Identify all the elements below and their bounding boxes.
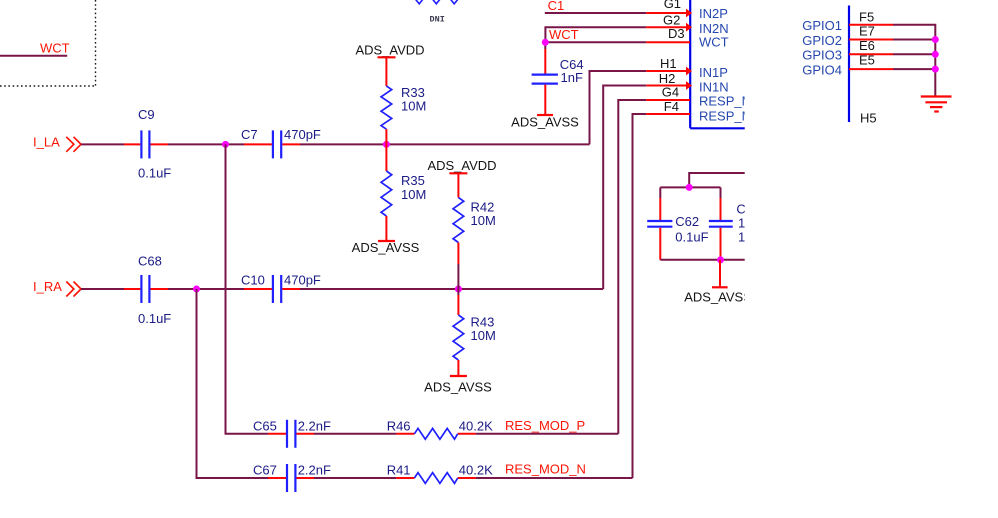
- svg-text:ADS_AVDD: ADS_AVDD: [427, 158, 496, 173]
- pin H1 IN1P: [646, 70, 690, 72]
- wire R42 to junction: [457, 264, 459, 289]
- clip mask (white area bottom-right): [745, 125, 998, 518]
- capacitor C63 bottom lead: [720, 228, 722, 260]
- capacitor C9 leads: [124, 143, 140, 145]
- junction dot A1: [222, 141, 229, 148]
- wire I_LA to junction: [168, 143, 244, 145]
- resistor R35: [381, 171, 392, 216]
- wire I_RA row: [81, 288, 124, 290]
- wire down to C64: [544, 42, 546, 49]
- svg-text:C9: C9: [138, 107, 155, 122]
- power symbol ADS_AVSS (C62/C63, clipped): [712, 286, 728, 288]
- pin E6 GPIO3: [849, 53, 893, 55]
- wire R41 to F4 riser: [476, 477, 633, 479]
- pin E5 GPIO4: [849, 68, 893, 70]
- IC U1 bottom edge (clipped): [690, 127, 745, 129]
- pin D3 WCT: [646, 41, 690, 43]
- capacitor C63 top lead: [720, 198, 722, 220]
- resistor R33: [381, 86, 392, 129]
- capacitor C62 bottom lead: [659, 228, 661, 260]
- capacitor C62 top lead: [659, 198, 661, 220]
- wire AVDD feed to C62/C63 (clipped right): [689, 173, 745, 187]
- svg-text:0.1uF: 0.1uF: [138, 311, 171, 326]
- resistor R35 top lead: [385, 144, 387, 171]
- svg-text:IN1N: IN1N: [699, 79, 729, 94]
- resistor R42: [453, 198, 464, 243]
- wire I_LA row: [81, 143, 124, 145]
- wire riser I_LA junction to C65 row: [226, 144, 269, 433]
- wire top bus of C62/C63: [660, 186, 720, 188]
- junction dot GPIO3: [932, 51, 939, 58]
- wire riser to F4 pin: [633, 114, 647, 478]
- wire GPIO1 to ground bus: [893, 25, 935, 96]
- capacitor C9 plates: [140, 130, 142, 158]
- resistor R43: [453, 315, 464, 360]
- capacitor C7 plates: [272, 130, 274, 158]
- svg-text:I_LA: I_LA: [33, 134, 60, 149]
- pin F5 GPIO1: [849, 24, 893, 26]
- wire C62 top stub: [659, 187, 661, 198]
- junction dot GPIO2: [932, 36, 939, 43]
- capacitor C7 leads: [244, 143, 272, 145]
- resistor R33 bottom lead: [385, 129, 387, 144]
- capacitor C63 plates: [709, 220, 733, 222]
- svg-text:RES_MOD_P: RES_MOD_P: [505, 418, 585, 433]
- svg-text:0.1uF: 0.1uF: [138, 165, 171, 180]
- wire C67 to R41: [314, 477, 396, 479]
- svg-text:F5: F5: [859, 10, 874, 25]
- wire riser to H1 pin: [590, 71, 647, 144]
- junction dot at R33/R35: [383, 141, 390, 148]
- diamond D-top-2: [432, 0, 441, 4]
- capacitor C67 plates: [286, 464, 288, 492]
- junction dot WCT: [542, 39, 549, 46]
- svg-text:GPIO2: GPIO2: [802, 33, 842, 48]
- resistor R46 leads: [396, 433, 414, 435]
- junction dot at R42/R43: [455, 286, 462, 293]
- pin F4 RESP_MODN: [646, 113, 690, 115]
- resistor R41 leads: [396, 477, 414, 479]
- svg-text:E7: E7: [859, 23, 875, 38]
- svg-text:GPIO4: GPIO4: [802, 62, 842, 77]
- svg-text:C65: C65: [253, 419, 277, 434]
- capacitor C10 plates: [272, 275, 274, 303]
- diamond D-top-1 (clipped at top edge): [415, 0, 424, 4]
- svg-text:C68: C68: [138, 254, 162, 269]
- power symbol ADS_AVSS (C64): [537, 114, 553, 116]
- svg-text:C62: C62: [675, 214, 699, 229]
- capacitor C62 plates: [647, 220, 672, 222]
- capacitor C10 leads: [244, 288, 272, 290]
- svg-text:ADS_AVSS: ADS_AVSS: [352, 240, 420, 255]
- junction dot B1: [193, 286, 200, 293]
- svg-text:R46: R46: [387, 419, 411, 434]
- capacitor C64 top lead: [544, 49, 546, 74]
- svg-text:F4: F4: [664, 99, 679, 114]
- svg-text:470pF: 470pF: [284, 273, 321, 288]
- capacitor C67 leads: [268, 477, 286, 479]
- op-amp/IC U1 left edge: [689, 0, 691, 128]
- svg-text:E5: E5: [859, 53, 875, 68]
- svg-text:I_RA: I_RA: [33, 279, 62, 294]
- junction dot C63 bottom: [717, 256, 724, 263]
- svg-text:D3: D3: [668, 26, 685, 41]
- dotted block border (top-left region): [0, 0, 96, 86]
- wire riser to H2 pin: [603, 86, 646, 290]
- wire G2 branch: [545, 27, 646, 42]
- power symbol ADS_AVSS (R43): [450, 375, 467, 377]
- svg-text:ADS_AVSS: ADS_AVSS: [684, 290, 752, 305]
- junction dot C62 top: [686, 184, 693, 191]
- svg-text:WCT: WCT: [549, 27, 579, 42]
- wire GPIO3 to bus: [893, 53, 935, 55]
- svg-text:2.2nF: 2.2nF: [298, 463, 331, 478]
- resistor R43 bottom lead: [457, 360, 459, 376]
- svg-text:G1: G1: [664, 0, 681, 11]
- svg-text:WCT: WCT: [699, 35, 729, 50]
- svg-text:ADS_AVSS: ADS_AVSS: [511, 114, 579, 129]
- capacitor C68 plates: [140, 275, 142, 303]
- svg-text:10M: 10M: [401, 187, 426, 202]
- svg-text:ADS_AVSS: ADS_AVSS: [424, 379, 492, 394]
- svg-text:WCT: WCT: [40, 40, 70, 55]
- svg-text:C67: C67: [253, 463, 277, 478]
- svg-text:RES_MOD_N: RES_MOD_N: [505, 462, 586, 477]
- resistor R35 bottom lead: [385, 216, 387, 241]
- power symbol ADS_AVSS (R35): [378, 240, 395, 242]
- svg-text:2.2nF: 2.2nF: [298, 419, 331, 434]
- svg-text:H1: H1: [660, 56, 677, 71]
- svg-text:DNI: DNI: [430, 14, 445, 24]
- pin E7 GPIO2: [849, 39, 893, 41]
- resistor R43 top lead: [457, 295, 459, 315]
- wire GPIO4 to bus: [893, 68, 935, 70]
- pin G2 IN2N: [646, 26, 690, 28]
- resistor R41: [414, 473, 457, 484]
- svg-text:40.2K: 40.2K: [459, 419, 493, 434]
- svg-text:IN2P: IN2P: [699, 6, 728, 21]
- pin G1 IN2P: [646, 12, 690, 14]
- capacitor C65 plates: [286, 420, 288, 448]
- pin H2 IN1N: [646, 85, 690, 87]
- svg-text:C1: C1: [548, 0, 565, 13]
- svg-text:ADS_AVDD: ADS_AVDD: [355, 42, 424, 57]
- svg-text:40.2K: 40.2K: [459, 463, 493, 478]
- svg-text:G4: G4: [662, 85, 679, 100]
- capacitor C64 bottom lead: [544, 85, 546, 115]
- wire I_LA row right of C7 to IN1P riser: [300, 143, 590, 145]
- capacitor C65 leads: [268, 433, 286, 435]
- wire D3 branch: [545, 41, 646, 43]
- wire I_RA row right of C10 to IN1N riser: [300, 288, 603, 290]
- wire riser to G4 pin: [618, 100, 646, 434]
- svg-text:GPIO1: GPIO1: [802, 18, 842, 33]
- svg-text:10M: 10M: [401, 98, 426, 113]
- wire I_RA to junction: [168, 288, 244, 290]
- IC U1 right-part edge: [848, 6, 850, 123]
- lead to AVSS: [719, 260, 721, 288]
- wire GPIO2 to bus: [893, 39, 935, 41]
- svg-text:RESP_M: RESP_M: [699, 93, 752, 108]
- svg-text:C7: C7: [241, 127, 258, 142]
- wire R46 to G4 riser: [476, 433, 619, 435]
- svg-text:H5: H5: [860, 110, 877, 125]
- wire junction to R43: [457, 289, 459, 295]
- svg-text:GPIO3: GPIO3: [802, 48, 842, 63]
- wire bottom bus of C62/C63 (clipped right): [660, 259, 745, 261]
- svg-text:10M: 10M: [471, 213, 496, 228]
- svg-text:1nF: 1nF: [561, 70, 583, 85]
- wire C65 to R46: [314, 433, 396, 435]
- svg-text:R41: R41: [387, 463, 411, 478]
- svg-text:10M: 10M: [471, 328, 496, 343]
- svg-text:470pF: 470pF: [284, 127, 321, 142]
- svg-text:R35: R35: [401, 173, 425, 188]
- wire WCT stub: [0, 55, 67, 57]
- pin G4 RESP_MODP: [646, 99, 690, 101]
- ground symbol: [921, 97, 952, 112]
- capacitor C64 plates: [532, 73, 558, 75]
- resistor R42 bottom lead: [457, 243, 459, 265]
- junction dot GPIO4: [932, 66, 939, 73]
- svg-text:IN1P: IN1P: [699, 65, 728, 80]
- svg-text:0.1uF: 0.1uF: [675, 229, 708, 244]
- diamond D-top-3: [450, 0, 459, 4]
- wire riser I_RA junction to C67 row: [197, 289, 269, 478]
- svg-text:E6: E6: [859, 38, 875, 53]
- svg-text:C10: C10: [241, 273, 265, 288]
- resistor R46: [414, 428, 457, 439]
- svg-text:RESP_M: RESP_M: [699, 108, 752, 123]
- capacitor C68 leads: [124, 288, 140, 290]
- wire C63 top stub: [720, 187, 722, 198]
- wire C1 net to G1 pin: [545, 12, 647, 14]
